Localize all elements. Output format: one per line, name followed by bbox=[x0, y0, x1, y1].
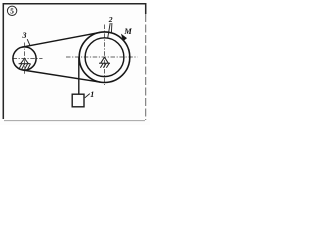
svg-text:3: 3 bbox=[22, 31, 27, 40]
svg-text:1: 1 bbox=[90, 90, 94, 99]
svg-text:5: 5 bbox=[10, 8, 14, 16]
svg-text:2: 2 bbox=[108, 15, 113, 24]
svg-text:M: M bbox=[123, 26, 132, 36]
